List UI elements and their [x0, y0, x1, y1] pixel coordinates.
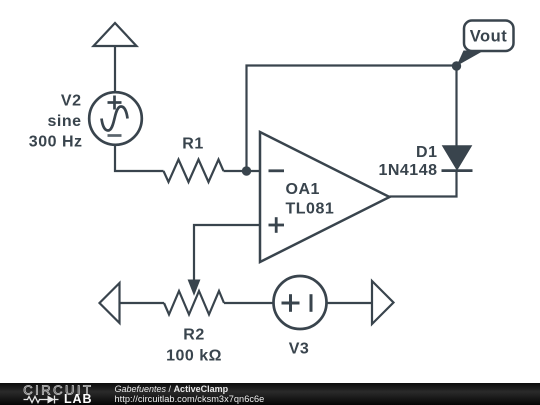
- svg-text:OA1: OA1: [286, 181, 320, 198]
- terminal T_left (left arrow node): [100, 283, 120, 323]
- wire V3 to right terminal: [327, 302, 373, 304]
- node Vout junction dot: [452, 61, 461, 70]
- wiper arrowhead of potentiometer R2: [188, 280, 199, 295]
- wire feedback loop up and over to Vout: [247, 66, 457, 172]
- wire terminal to V2 top: [114, 46, 116, 93]
- CircuitLab logo: [20, 384, 120, 405]
- wire D1 cathode to op-amp output: [390, 171, 457, 197]
- wire R2 to V3: [224, 302, 274, 304]
- wire left terminal to R2: [120, 302, 165, 304]
- wire op-amp non-inverting input to R2 wiper: [194, 225, 260, 281]
- svg-text:V2: V2: [61, 93, 82, 110]
- footer bar: [0, 383, 540, 405]
- label OA1 TL081: [286, 181, 335, 218]
- diode D1 1N4148: [442, 146, 473, 171]
- svg-text:sine: sine: [47, 113, 81, 130]
- op-amp OA1 TL081: [260, 132, 390, 262]
- voltage source V2 (sine): [89, 92, 142, 145]
- terminal T_right (right arrow node): [372, 281, 394, 324]
- wire V2 bottom to R1: [115, 145, 164, 171]
- svg-text:Vout: Vout: [470, 28, 507, 46]
- svg-text:300 Hz: 300 Hz: [29, 134, 83, 151]
- svg-text:100 kΩ: 100 kΩ: [166, 348, 222, 365]
- footer url line: [115, 394, 265, 404]
- footer credit line: [115, 384, 229, 394]
- wire R1 to op-amp inverting input: [224, 170, 261, 172]
- terminal T_top (up arrow node): [94, 23, 137, 46]
- resistor R1: [164, 160, 224, 183]
- svg-text:TL081: TL081: [286, 201, 335, 218]
- svg-text:D1: D1: [416, 144, 437, 161]
- label flag Vout: [457, 21, 514, 67]
- potentiometer R2 body: [164, 291, 224, 315]
- label D1 1N4148: [378, 144, 437, 179]
- junction node at R1 / feedback: [242, 166, 251, 175]
- wire Vout node down to D1 anode: [455, 66, 457, 146]
- svg-text:R2: R2: [183, 327, 204, 344]
- svg-text:1N4148: 1N4148: [378, 162, 437, 179]
- svg-text:LAB: LAB: [64, 392, 92, 405]
- label V2 sine 300 Hz: [29, 93, 83, 151]
- label R2 100 kOhm: [166, 327, 222, 365]
- svg-text:R1: R1: [182, 136, 203, 153]
- voltage source V3 (DC): [274, 276, 327, 329]
- svg-text:V3: V3: [289, 341, 310, 358]
